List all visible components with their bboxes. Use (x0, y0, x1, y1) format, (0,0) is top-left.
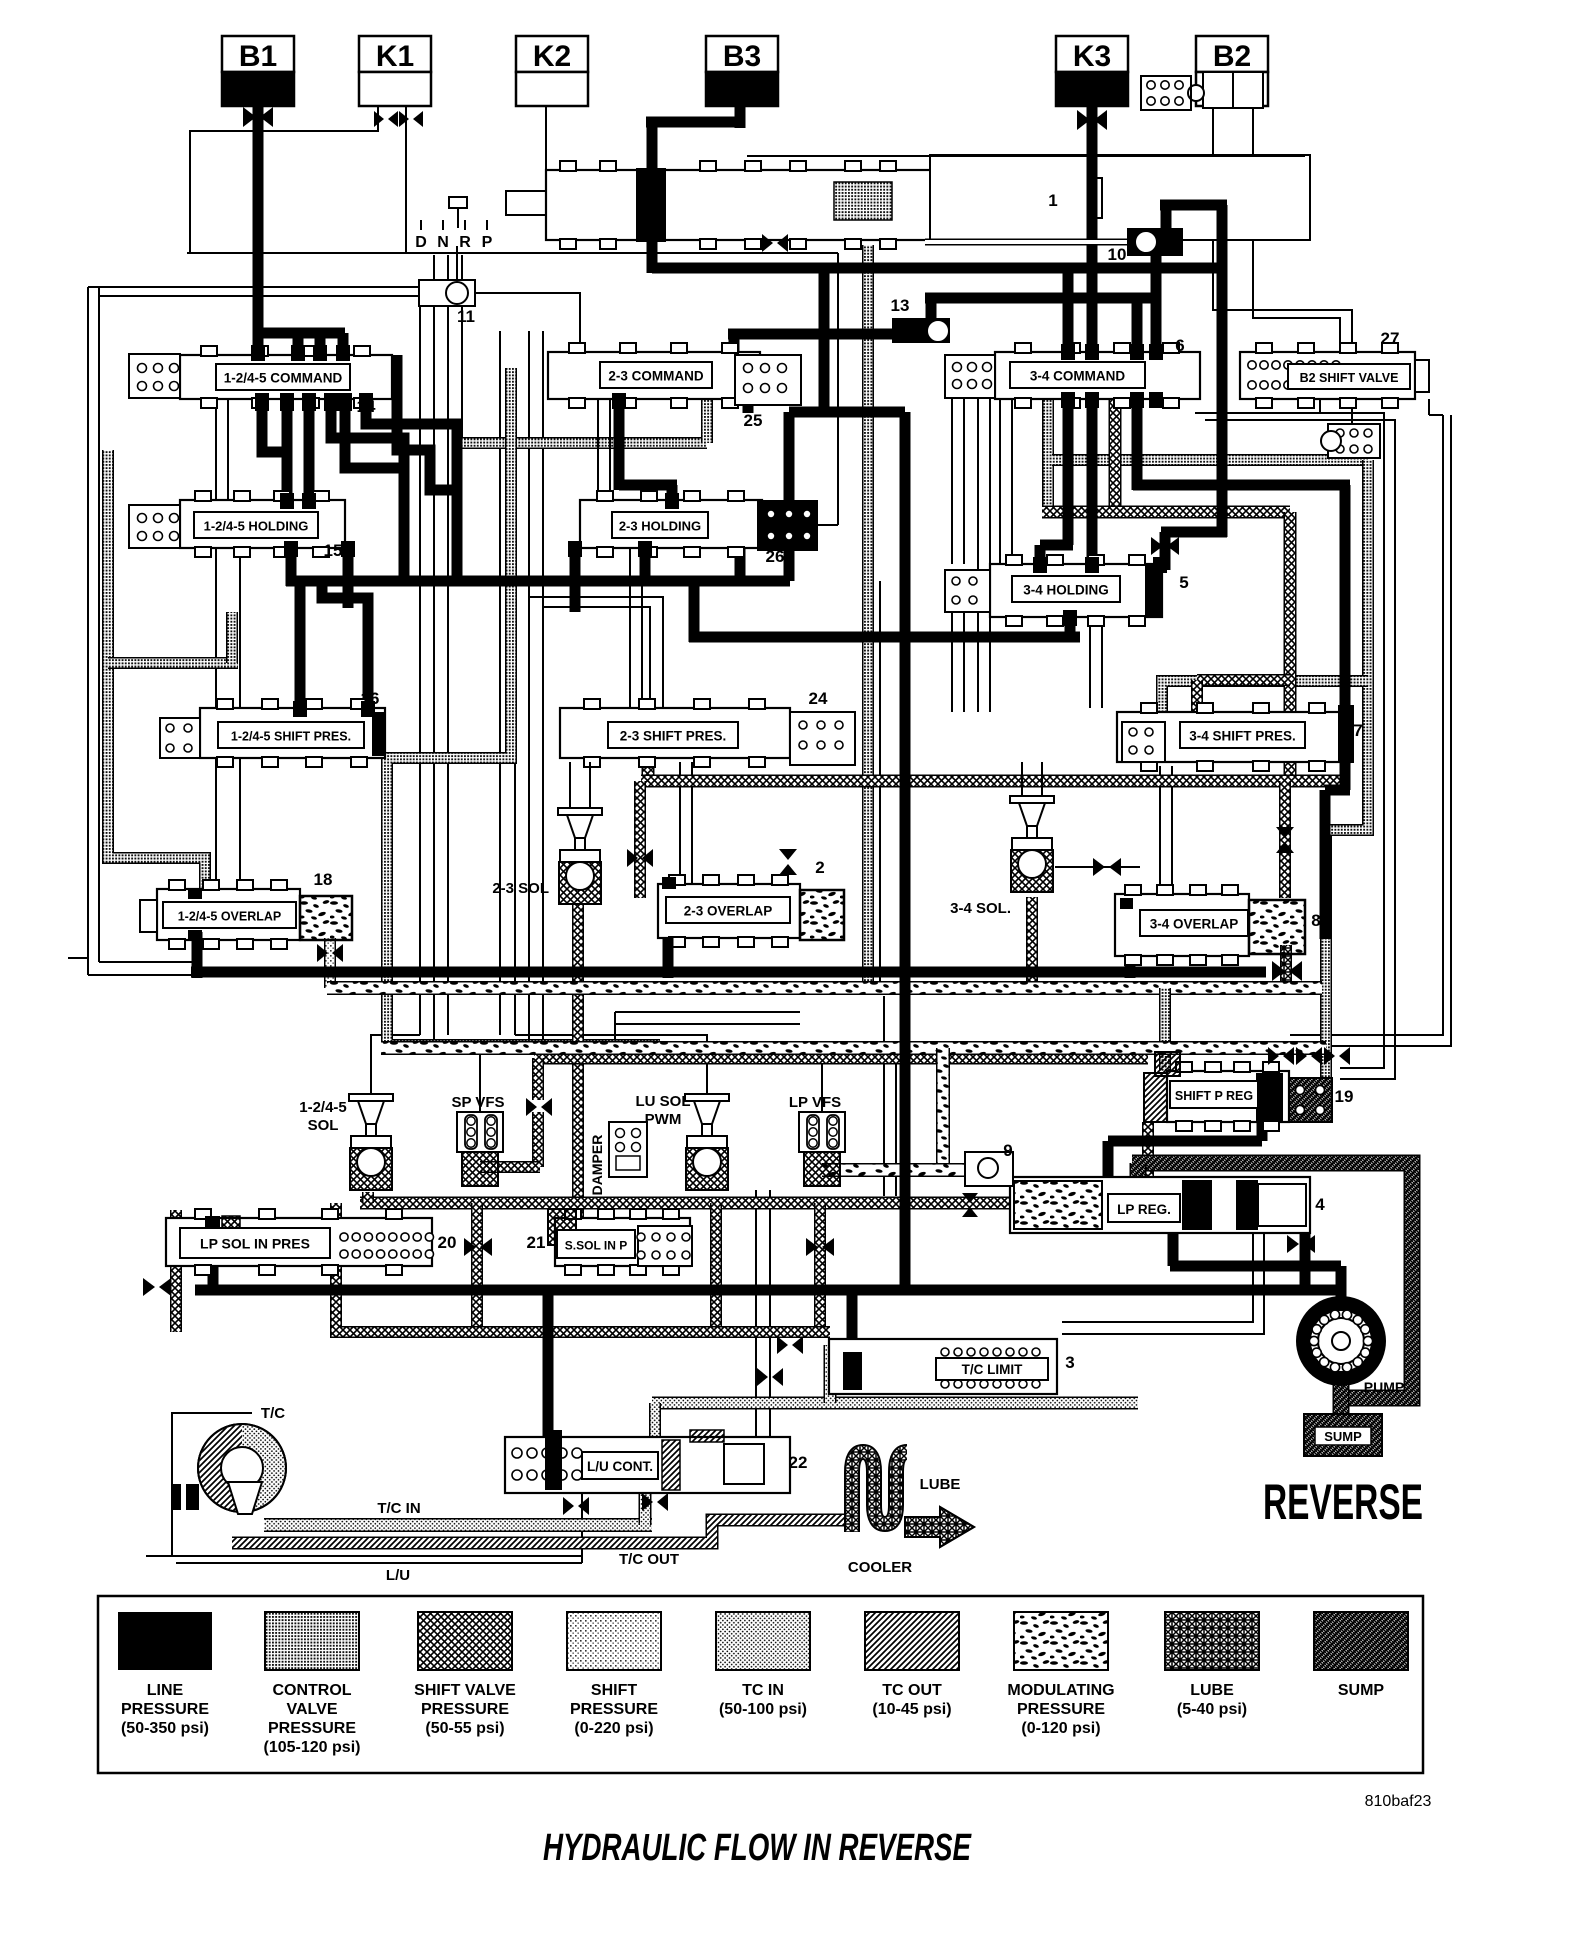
tc in line under T/C limit (652, 1397, 1138, 1410)
wire lp staircase right of command (397, 355, 457, 490)
wire lp port tab V3 top (1149, 344, 1163, 360)
legend swatch SHIFT (567, 1612, 661, 1737)
modulating drop (936, 1048, 950, 1165)
svg-text:L/U: L/U (386, 1567, 410, 1584)
small accumulator valve near B2 (1141, 76, 1204, 110)
svg-text:10: 10 (1108, 245, 1127, 264)
svg-text:(50-100 psi): (50-100 psi) (719, 1701, 807, 1718)
solenoid LU SOL PWM (685, 1094, 729, 1190)
svg-text:LU SOL: LU SOL (636, 1093, 691, 1110)
wire lp 3-4 overlap down (1125, 952, 1136, 978)
valve 3-4 OVERLAP (1115, 885, 1321, 965)
svg-text:810baf23: 810baf23 (1365, 1793, 1432, 1810)
wire (1041, 762, 1043, 798)
wire branch (529, 597, 663, 708)
riser lower (532, 1112, 544, 1167)
wire lp to 1-2/4-5 shift pres (295, 585, 306, 712)
wire right edge (1205, 420, 1395, 1079)
svg-text:HYDRAULIC FLOW IN REVERSE: HYDRAULIC FLOW IN REVERSE (543, 1827, 972, 1869)
VFS solenoid LP VFS (799, 1112, 845, 1186)
wire lp port tab V1 bottom (255, 393, 269, 411)
svg-text:1: 1 (1048, 191, 1057, 210)
drop to L/U cont (649, 1403, 661, 1437)
wire lp LP REG right down (1300, 1180, 1311, 1290)
control pressure right vertical (1326, 460, 1368, 1078)
SP VFS output elbow (480, 1161, 540, 1173)
wire bundle (528, 331, 530, 1045)
svg-text:26: 26 (766, 547, 785, 566)
shift valve pressure stub (642, 758, 655, 781)
svg-text:PWM: PWM (645, 1111, 682, 1128)
wire lp into lp reg top (1103, 1141, 1114, 1177)
control pressure line (226, 612, 238, 663)
wire lp header over command (258, 328, 345, 339)
wire lp 2-3 holding right down (735, 548, 746, 581)
solenoid 3-4 SOL (1010, 796, 1054, 892)
wire (679, 762, 681, 884)
svg-text:R: R (459, 234, 471, 251)
wire (1055, 866, 1140, 868)
valve 1-2/4-5 HOLDING (129, 491, 345, 560)
svg-text:LINE: LINE (147, 1682, 184, 1699)
wire (1428, 399, 1430, 415)
restrictor right col (1272, 961, 1302, 981)
legend swatch MODULATING (1007, 1612, 1114, 1737)
wire lp port tab V3 top (1061, 344, 1075, 360)
wire lp cluster (304, 399, 315, 500)
wire node11 to 2-3 command (475, 293, 580, 352)
wire to LU sol (515, 1035, 707, 1094)
svg-text:PRESSURE: PRESSURE (570, 1701, 658, 1718)
wire lp below shift p reg (1257, 1122, 1268, 1141)
wire (215, 758, 217, 889)
wire line pressure overlap trunk (191, 967, 710, 978)
wire lp (667, 485, 678, 505)
svg-text:15: 15 (324, 541, 343, 560)
wire lp (646, 117, 745, 128)
legend swatch CONTROL (264, 1612, 361, 1756)
svg-text:5: 5 (1179, 573, 1188, 592)
wire (239, 758, 241, 889)
svg-text:9: 9 (1003, 1141, 1012, 1160)
wire lp y485 to right col (1133, 480, 1350, 491)
wire lp (1161, 527, 1227, 538)
solenoid 2-3 SOL (558, 808, 602, 904)
wire lp port tab V7 bottom (1063, 610, 1077, 626)
shift valve pressure line (1109, 394, 1122, 512)
svg-text:P: P (482, 234, 493, 251)
shift valve pressure mid trunk (534, 1052, 1148, 1065)
wire line pressure K3 down (1087, 106, 1098, 568)
svg-text:1-2/4-5 SHIFT PRES.: 1-2/4-5 SHIFT PRES. (231, 730, 351, 744)
2-3 overlap spring chamber (800, 890, 844, 940)
svg-text:SUMP: SUMP (1324, 1429, 1362, 1444)
svg-text:11: 11 (457, 307, 475, 326)
svg-text:2-3 SOL: 2-3 SOL (492, 880, 549, 897)
svg-text:K2: K2 (533, 40, 571, 73)
svg-text:19: 19 (1335, 1087, 1354, 1106)
wire branch (543, 607, 650, 708)
wire (1021, 762, 1023, 798)
pipe to node 10 (925, 239, 1127, 246)
wire lp (286, 548, 297, 586)
svg-text:3-4 SHIFT PRES.: 3-4 SHIFT PRES. (1189, 729, 1296, 744)
valve T/C LIMIT (829, 1339, 1057, 1394)
control line y443 (462, 437, 707, 449)
riser (362, 1192, 374, 1203)
wire lp stub (293, 333, 304, 357)
wire lp x824 down (819, 273, 830, 412)
svg-text:TC IN: TC IN (742, 1682, 784, 1699)
tc in frame left (824, 1345, 837, 1403)
wire lp port tab V1 top (336, 345, 350, 361)
wire lp stub (315, 333, 326, 357)
node 13 (892, 318, 950, 343)
sump suction line (1132, 1163, 1412, 1398)
restrictor near 4 (1287, 1235, 1315, 1253)
wire lp y298 (925, 293, 1160, 304)
wire lp (614, 392, 625, 490)
svg-text:COOLER: COOLER (848, 1559, 912, 1576)
wire lp right col into 7 (1340, 485, 1351, 710)
svg-text:(50-55 psi): (50-55 psi) (425, 1720, 504, 1737)
legend swatch TC OUT (865, 1612, 959, 1718)
restrictor below node 9 (962, 1193, 978, 1217)
shift valve pressure right drop (1284, 512, 1297, 781)
wire lp port tab V3 bottom (1149, 392, 1163, 408)
wire lp port tab V1 bottom (359, 393, 373, 411)
valve 3-4 HOLDING (945, 555, 1189, 626)
wire lp cluster (366, 399, 457, 581)
svg-text:N: N (437, 234, 449, 251)
wire lp 2-3 holding down (640, 548, 651, 586)
wire lp 2-3 overlap down (663, 938, 674, 978)
wire lp port tab V8 top (293, 701, 307, 717)
restrictor below 1-2/4-5 overlap (317, 944, 343, 962)
valve SHIFT P REG (1144, 1052, 1353, 1131)
svg-text:SP VFS: SP VFS (451, 1094, 504, 1111)
wire lp below LP REG (1170, 1261, 1341, 1272)
wire (977, 399, 979, 712)
wire lp (1132, 298, 1143, 490)
svg-text:VALVE: VALVE (287, 1701, 338, 1718)
VFS solenoid SP VFS (457, 1112, 503, 1186)
wire (769, 1190, 771, 1437)
control pressure y681 (1162, 681, 1368, 712)
svg-text:K3: K3 (1073, 40, 1111, 73)
wire right edge2 (1290, 415, 1451, 1046)
wire (691, 762, 693, 884)
restrictor 3-4 holding (1151, 537, 1179, 555)
wire lp y412 (789, 407, 905, 418)
wire lp port tab V3 top (1085, 344, 1099, 360)
svg-text:8: 8 (1311, 911, 1320, 930)
wire lp port tab V5 top (302, 493, 316, 509)
restrictor above 3-4 overlap (1276, 827, 1294, 853)
valve LP SOL IN PRES (166, 1209, 456, 1275)
valve L/U CONT. (505, 1430, 790, 1493)
svg-text:LUBE: LUBE (920, 1476, 961, 1493)
svg-text:1-2/4-5: 1-2/4-5 (299, 1099, 347, 1116)
restrictor under B1 (243, 107, 273, 127)
svg-text:K1: K1 (376, 40, 414, 73)
wire lp to L/U cont (543, 1290, 554, 1440)
wire lp to T/C limit (847, 1290, 858, 1350)
shift valve pressure trunk (641, 775, 1345, 788)
wire (951, 399, 953, 564)
wire lp port tab V1 bottom (280, 393, 294, 411)
wire (456, 246, 458, 280)
wire bundle (514, 370, 516, 1035)
svg-text:CONTROL: CONTROL (272, 1682, 351, 1699)
clutch B1 (222, 36, 294, 106)
wire bundle (433, 255, 435, 1045)
wire (999, 399, 1001, 564)
clutch K1 (359, 36, 431, 106)
lube drop below 3-4 overlap spring (1280, 945, 1292, 990)
wire lp port tab V1 bottom (338, 393, 352, 411)
restrictor under K3 (1077, 110, 1107, 130)
svg-text:B2 SHIFT VALVE: B2 SHIFT VALVE (1300, 371, 1399, 385)
wire lp into 3-4 holding (1035, 545, 1046, 566)
wire to LP VFS (543, 1055, 822, 1112)
wire bundle (419, 306, 421, 1035)
wire lp to node 13 (728, 329, 897, 340)
wire (98, 287, 100, 962)
wire lp node13 up stub (926, 298, 937, 320)
svg-text:1-2/4-5 OVERLAP: 1-2/4-5 OVERLAP (178, 910, 282, 924)
svg-text:PRESSURE: PRESSURE (121, 1701, 209, 1718)
wire lp port tab V7 top b (1085, 557, 1099, 573)
wire lp jog (1325, 785, 1350, 796)
svg-text:24: 24 (809, 689, 828, 708)
valve S.SOL IN P (527, 1209, 690, 1275)
wire lp cluster2 (345, 399, 404, 468)
svg-text:L/U CONT.: L/U CONT. (587, 1459, 653, 1474)
wire (569, 762, 571, 810)
wire (615, 1011, 800, 1013)
restrictor below L/U cont (563, 1497, 589, 1515)
shift valve pressure branch drop (1191, 680, 1203, 712)
wire to node 11 (88, 286, 419, 288)
sump (1304, 1414, 1382, 1456)
modulating pressure trunk 2 (381, 1041, 1326, 1055)
svg-text:3-4 OVERLAP: 3-4 OVERLAP (1150, 917, 1239, 932)
modulating to node 9 (822, 1163, 1014, 1177)
wire right edge2 (1290, 415, 1443, 1035)
wire lp port tab V6 bottom b (568, 541, 582, 557)
wire K2 down (545, 106, 547, 170)
wire B2 down (1213, 108, 1352, 424)
wire lp port tab V1 bottom (302, 393, 316, 411)
T/C OUT line (232, 1520, 852, 1543)
wire lp into 26 box and trunk (784, 412, 795, 581)
wire lp port tab V2 bottom (612, 393, 626, 409)
wire lp stub (338, 333, 349, 357)
svg-text:SOL: SOL (308, 1117, 339, 1134)
restrictor to 2-3 overlap (627, 849, 653, 867)
wire bundle (499, 331, 501, 1035)
restrictor left of T/C limit (777, 1336, 803, 1354)
wire lp port tab V3 bottom (1085, 392, 1099, 408)
control drop 2-3 command (701, 399, 713, 443)
wire lp cluster (262, 399, 287, 452)
svg-text:PRESSURE: PRESSURE (421, 1701, 509, 1718)
svg-text:LP VFS: LP VFS (789, 1094, 841, 1111)
wire under LP REG (1062, 1233, 1253, 1322)
svg-text:(50-350 psi): (50-350 psi) (121, 1720, 209, 1737)
svg-text:2-3 OVERLAP: 2-3 OVERLAP (684, 904, 773, 919)
control pressure line to B2 small valve (1052, 454, 1368, 466)
wire line pressure trunk A (286, 576, 790, 587)
control pressure line left staircase (108, 450, 205, 889)
damper (609, 1122, 647, 1177)
svp drop at 21 right (814, 1203, 826, 1332)
wire lp (208, 1262, 219, 1290)
wire lp (1336, 1266, 1347, 1300)
svg-text:SHIFT: SHIFT (591, 1682, 637, 1699)
restrictor above shift p reg (1268, 1047, 1294, 1065)
wire (239, 548, 241, 708)
wire (1011, 399, 1013, 564)
svg-text:21: 21 (527, 1233, 546, 1252)
svg-text:6: 6 (1175, 336, 1184, 355)
wire L/U (176, 1562, 582, 1564)
wire L/U (176, 1555, 582, 1557)
wire (1101, 617, 1103, 708)
control pressure line (108, 657, 238, 669)
control pressure line mid (387, 368, 660, 1045)
wire lp port tab V1 top (291, 345, 305, 361)
svg-text:T/C LIMIT: T/C LIMIT (962, 1362, 1023, 1377)
svg-text:SUMP: SUMP (1338, 1682, 1385, 1699)
valve 2-3 OVERLAP (658, 858, 825, 947)
wire (87, 287, 89, 975)
legend swatch LUBE (1165, 1612, 1259, 1718)
restrictor near SP VFS (526, 1098, 552, 1116)
wire (1429, 414, 1443, 416)
svg-text:3-4 COMMAND: 3-4 COMMAND (1030, 369, 1126, 384)
wire line pressure B3 down (735, 106, 746, 128)
legend swatch SHIFT VALVE (414, 1612, 516, 1737)
svg-text:7: 7 (1353, 721, 1362, 740)
svg-text:18: 18 (314, 870, 333, 889)
wire (1171, 766, 1173, 894)
clutch K2 (516, 36, 588, 106)
wire line pressure manual trunk (652, 263, 1227, 274)
svg-text:2: 2 (815, 858, 824, 877)
wire right edge (1195, 413, 1384, 1068)
riser to bowtie (532, 1058, 544, 1100)
wire lp port tab V3 top (1130, 344, 1144, 360)
svg-text:3: 3 (1065, 1353, 1074, 1372)
restrictor under K1 (374, 111, 398, 127)
wire lp port tab V1 top (313, 345, 327, 361)
wire (215, 399, 217, 500)
wire lp port tab V1 bottom (324, 393, 338, 411)
valve 3-4 SHIFT PRES. (1117, 703, 1363, 771)
wire K1 feed (190, 106, 378, 253)
wire (227, 399, 229, 500)
svp drop mid (710, 1203, 722, 1332)
wire lp elbow (1040, 540, 1073, 551)
pump (1296, 1296, 1386, 1386)
restrictor above L/U right (757, 1368, 783, 1386)
wire lp trunk B rise (1065, 607, 1076, 642)
wire lp jog to shift pres (322, 581, 368, 712)
restrictor under K1 b (399, 111, 423, 127)
wire line pressure bottom trunk (195, 1285, 1341, 1296)
wire lp stub into 2-3 command (729, 334, 740, 358)
shift valve pressure to shift p reg (1142, 1122, 1154, 1203)
svg-text:27: 27 (1381, 329, 1400, 348)
clutch B3 (706, 36, 778, 106)
restrictor above shift p reg 2 (1296, 1047, 1322, 1065)
restrictor 20 (464, 1238, 492, 1256)
svg-text:(105-120 psi): (105-120 psi) (264, 1739, 361, 1756)
wire stub (68, 957, 88, 959)
clutch K3 (1056, 36, 1128, 106)
restrictor above 2-3 overlap spring (779, 849, 797, 875)
svg-text:SHIFT VALVE: SHIFT VALVE (414, 1682, 516, 1699)
valve 2-3 SHIFT PRES. (560, 689, 855, 767)
svg-text:TC OUT: TC OUT (882, 1682, 942, 1699)
shift valve pressure to 2-3 overlap (634, 781, 646, 898)
wire (989, 399, 991, 712)
wire lp x1068 down (1063, 273, 1074, 545)
wire (895, 1048, 897, 1196)
wire bundle (542, 331, 544, 1055)
wire (614, 1012, 616, 1045)
wire lp right col 2 (1340, 763, 1351, 790)
shift valve pressure from 2-3 sol (572, 904, 584, 1218)
svg-text:T/C OUT: T/C OUT (619, 1551, 679, 1568)
wire (215, 548, 217, 708)
wire lp through manual valve (647, 122, 658, 273)
svg-text:B1: B1 (239, 40, 277, 73)
shift p reg spring cage (1289, 1078, 1332, 1122)
wire (99, 961, 195, 963)
shift valve pressure to 3-4 overlap (1279, 781, 1291, 898)
wire (1319, 399, 1321, 413)
wire lp port tab V1 top (251, 345, 265, 361)
wire lp overlap down (192, 932, 203, 978)
wire lp port tab V3 bottom (1130, 392, 1144, 408)
node 10 (1127, 228, 1183, 256)
svg-text:B3: B3 (723, 40, 761, 73)
wire (629, 548, 631, 708)
shift pressure drop (324, 938, 336, 988)
wire (146, 1555, 176, 1557)
svg-text:T/C: T/C (261, 1405, 285, 1422)
small valve on control line (1321, 424, 1380, 458)
wire lp port tab V6 top (665, 493, 679, 509)
sump line left (1130, 1163, 1147, 1187)
pump to sump stub (1333, 1378, 1350, 1416)
modulating pressure trunk (327, 981, 1322, 995)
wire to SP VFS (434, 1045, 480, 1112)
wire (755, 1190, 757, 1437)
legend swatch SUMP (1314, 1612, 1408, 1699)
shift valve pressure branch (1197, 674, 1290, 686)
wire (615, 1023, 800, 1025)
wire (581, 1493, 583, 1563)
manual valve 1 body (506, 155, 1310, 249)
wire lp into 3-4 holding (1160, 532, 1171, 570)
node 9 (965, 1152, 1013, 1186)
lube arrow (905, 1507, 974, 1547)
wire (589, 762, 591, 810)
